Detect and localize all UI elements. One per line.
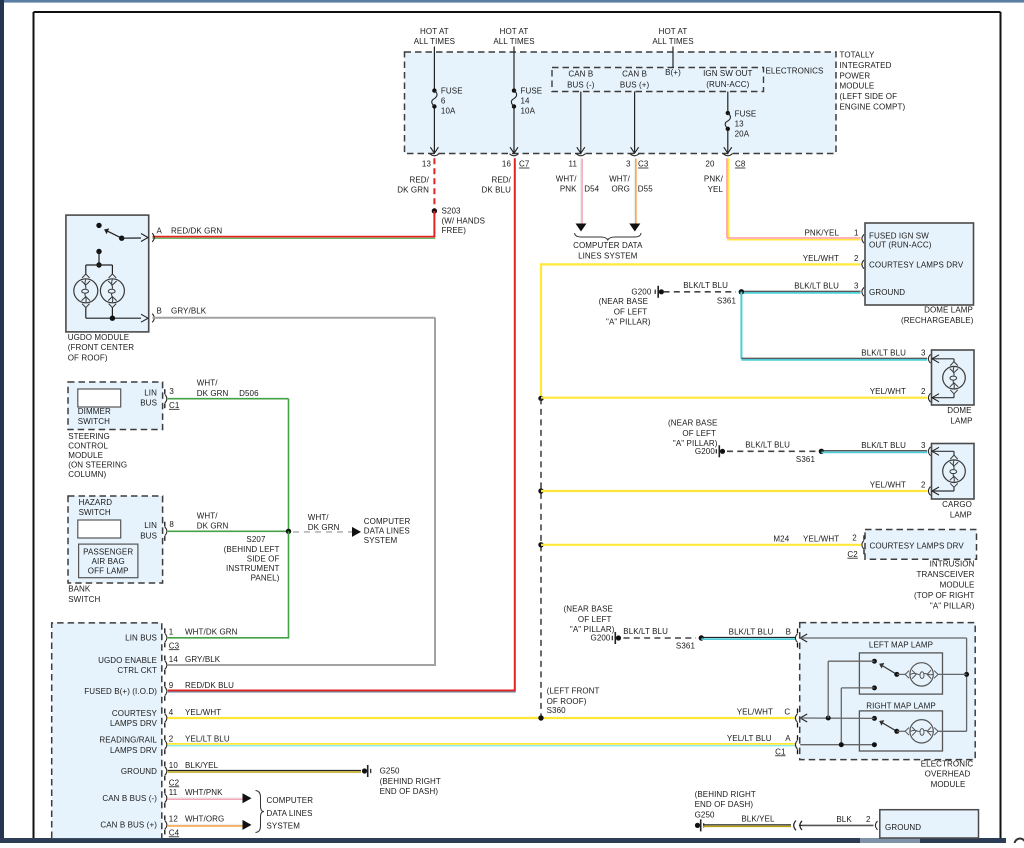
- svg-text:BUS (-): BUS (-): [567, 80, 595, 89]
- svg-text:DK GRN: DK GRN: [308, 523, 340, 532]
- svg-text:11: 11: [568, 160, 577, 169]
- wire WHT/PNK from pin 11: [576, 159, 587, 232]
- svg-text:"A" PILLAR): "A" PILLAR): [606, 318, 651, 327]
- wire BLK/LT BLU S361 to cargo lamp pin 3: [821, 441, 927, 453]
- wire YEL/WHT module pin 4 to EOM pin C: [168, 717, 796, 719]
- dome lamp name: [947, 406, 972, 425]
- DLR pin 2 COURTESY LAMPS DRV: [854, 254, 964, 270]
- svg-text:13: 13: [735, 119, 745, 128]
- ground G200 for cargo lamp: [668, 419, 725, 458]
- svg-text:S361: S361: [676, 642, 696, 651]
- dome lamp box: [932, 350, 975, 405]
- svg-text:BLK/LT BLU: BLK/LT BLU: [683, 281, 728, 290]
- svg-text:(ON STEERING: (ON STEERING: [68, 461, 127, 470]
- EOM wire B feed (ground side): [800, 638, 969, 731]
- svg-text:DK GRN: DK GRN: [197, 522, 229, 531]
- svg-text:RED/DK BLU: RED/DK BLU: [185, 681, 234, 690]
- svg-text:ENGINE COMPT): ENGINE COMPT): [840, 103, 906, 112]
- dashed harness run (left A pillar): [540, 398, 542, 718]
- svg-text:B: B: [786, 628, 791, 637]
- svg-text:FREE): FREE): [442, 226, 467, 235]
- svg-text:ALL TIMES: ALL TIMES: [652, 37, 693, 46]
- svg-text:OFF LAMP: OFF LAMP: [88, 567, 129, 576]
- svg-text:BUS (+): BUS (+): [620, 80, 650, 89]
- svg-text:HOT AT: HOT AT: [500, 27, 529, 36]
- UGDO pin A: [152, 227, 222, 242]
- svg-text:A: A: [785, 734, 791, 743]
- module pin 4 (YEL/WHT): [110, 708, 221, 728]
- svg-text:UGDO ENABLE: UGDO ENABLE: [98, 656, 157, 665]
- UGDO lamp return wires to pin B: [86, 308, 148, 322]
- UGDO lamp feed node: [86, 249, 113, 274]
- bank switch box: [68, 496, 163, 583]
- cargo lamp internal lamp: [933, 451, 965, 491]
- module pin 11 (WHT/PNK): [102, 788, 223, 808]
- svg-text:S203: S203: [442, 207, 462, 216]
- svg-text:BLK/LT BLU: BLK/LT BLU: [623, 627, 668, 636]
- svg-text:MODULE: MODULE: [840, 82, 875, 91]
- ground G250 (bottom right): [695, 790, 756, 832]
- splice S207: [224, 529, 292, 583]
- svg-text:12: 12: [169, 815, 179, 824]
- wire RED/DK GRN dashed segment from pin 13: [433, 158, 435, 209]
- bank switch LIN BUS label: [140, 521, 157, 540]
- svg-text:16: 16: [502, 160, 512, 169]
- svg-text:YEL/WHT: YEL/WHT: [737, 708, 773, 717]
- module pin 14 (GRY/BLK): [98, 655, 221, 675]
- svg-text:POWER: POWER: [840, 71, 871, 80]
- svg-text:WHT/PNK: WHT/PNK: [185, 788, 223, 797]
- UGDO lamp 1: [74, 279, 98, 303]
- svg-text:S361: S361: [717, 296, 737, 305]
- svg-text:YEL/LT BLU: YEL/LT BLU: [185, 735, 230, 744]
- svg-text:YEL/LT BLU: YEL/LT BLU: [727, 734, 772, 743]
- svg-text:G250: G250: [380, 767, 400, 776]
- svg-text:CONTROL: CONTROL: [68, 441, 108, 450]
- svg-text:2: 2: [854, 254, 859, 263]
- wire WHT/PNK module pin 11 to data lines: [168, 793, 252, 803]
- ground box pin 2: [866, 815, 878, 830]
- svg-text:CAN B: CAN B: [622, 70, 647, 79]
- svg-text:10A: 10A: [441, 106, 456, 115]
- svg-text:CARGO: CARGO: [942, 500, 972, 509]
- svg-text:(BEHIND LEFT: (BEHIND LEFT: [224, 545, 280, 554]
- svg-text:BLK/YEL: BLK/YEL: [185, 761, 219, 770]
- dimmer switch: [78, 389, 121, 426]
- UGDO module name: [68, 333, 135, 363]
- SCM LIN BUS label: [140, 388, 157, 407]
- svg-text:INTRUSION: INTRUSION: [930, 560, 975, 569]
- svg-text:ALL TIMES: ALL TIMES: [493, 37, 534, 46]
- svg-text:S207: S207: [246, 535, 266, 544]
- ground G200 (near base of left A pillar): [599, 286, 664, 327]
- splice S361 (cargo): [796, 449, 824, 464]
- right map lamp box: [859, 711, 942, 751]
- svg-text:FUSE: FUSE: [521, 86, 543, 95]
- svg-text:WHT/ORG: WHT/ORG: [185, 815, 224, 824]
- svg-text:FUSED B(+) (I.O.D): FUSED B(+) (I.O.D): [84, 687, 157, 696]
- svg-text:AIR BAG: AIR BAG: [92, 557, 125, 566]
- wire GRY/BLK from UGDO pin B to module pin 14: [153, 318, 437, 666]
- intrusion transceiver module name: [914, 560, 975, 611]
- left map lamp box: [859, 653, 942, 694]
- power feed HOT AT ALL TIMES (fuse 6): [414, 27, 455, 88]
- svg-text:"A" PILLAR): "A" PILLAR): [930, 602, 975, 611]
- svg-text:GROUND: GROUND: [885, 823, 921, 832]
- wire WHT/ORG label and D55: [609, 175, 653, 194]
- UGDO lamp 2: [100, 279, 124, 303]
- svg-text:YEL: YEL: [708, 185, 724, 194]
- svg-text:SIDE OF: SIDE OF: [247, 554, 280, 563]
- svg-text:(NEAR BASE: (NEAR BASE: [668, 419, 717, 428]
- svg-text:OF ROOF): OF ROOF): [68, 354, 108, 363]
- svg-text:END OF DASH): END OF DASH): [695, 800, 754, 809]
- EOM name: [921, 759, 974, 789]
- svg-text:COLUMN): COLUMN): [68, 470, 106, 479]
- power feed HOT AT ALL TIMES (fuse 14): [493, 27, 534, 88]
- svg-text:WHT/: WHT/: [197, 511, 219, 520]
- wire BLK/YEL G250 to inline connector: [703, 815, 791, 827]
- svg-text:ALL TIMES: ALL TIMES: [414, 37, 455, 46]
- svg-text:2: 2: [169, 735, 174, 744]
- svg-text:UGDO MODULE: UGDO MODULE: [68, 333, 130, 342]
- svg-text:OF LEFT: OF LEFT: [614, 307, 648, 316]
- wire WHT/ORG module pin 12 to data lines: [168, 820, 252, 830]
- right map lamp switch: [872, 716, 899, 734]
- svg-text:DOME: DOME: [947, 406, 971, 415]
- svg-text:COURTESY: COURTESY: [112, 709, 158, 718]
- wire YEL/WHT from DLR pin 2: [541, 254, 861, 399]
- svg-text:(BEHIND RIGHT: (BEHIND RIGHT: [695, 790, 756, 799]
- svg-text:10: 10: [169, 761, 179, 770]
- wire BLK/LT BLU S361 down to dome lamp pin 3: [741, 292, 927, 360]
- svg-text:C3: C3: [638, 160, 649, 169]
- svg-text:(NEAR BASE: (NEAR BASE: [564, 605, 613, 614]
- wire BLK/LT BLU S361 to EOM pin B: [701, 628, 795, 640]
- svg-text:SWITCH: SWITCH: [78, 417, 110, 426]
- overhead console module box (bottom left): [52, 623, 162, 838]
- svg-text:BLK/YEL: BLK/YEL: [741, 815, 775, 824]
- computer data lines system (top) brace and label: [573, 233, 643, 260]
- svg-text:YEL/WHT: YEL/WHT: [870, 387, 906, 396]
- wire YEL/WHT junction to dome lamp pin 2: [538, 396, 927, 401]
- EOM pin B: [786, 628, 808, 648]
- svg-text:M24: M24: [773, 535, 789, 544]
- svg-text:D55: D55: [638, 184, 653, 193]
- wire WHT/DK GRN labels at pin 8: [197, 511, 229, 530]
- svg-text:COMPUTER: COMPUTER: [364, 517, 411, 526]
- wire YEL/LT BLU module pin 2 to EOM pin A: [168, 743, 796, 745]
- svg-text:(BEHIND RIGHT: (BEHIND RIGHT: [380, 777, 441, 786]
- module pin 9 (RED/DK BLU): [84, 681, 234, 701]
- svg-text:CAN B BUS (-): CAN B BUS (-): [102, 794, 157, 803]
- wire RED/DK GRN label: [397, 175, 429, 194]
- wire WHT/DK GRN from SCM pin 3 (D506): [168, 399, 289, 532]
- svg-text:TRANSCEIVER: TRANSCEIVER: [917, 570, 975, 579]
- svg-text:(LEFT SIDE OF: (LEFT SIDE OF: [840, 92, 898, 101]
- svg-text:GRY/BLK: GRY/BLK: [171, 307, 207, 316]
- svg-text:TOTALLY: TOTALLY: [840, 51, 875, 60]
- svg-text:2: 2: [866, 815, 871, 824]
- svg-text:INTEGRATED: INTEGRATED: [840, 61, 892, 70]
- svg-text:B(+): B(+): [665, 68, 681, 77]
- svg-text:DIMMER: DIMMER: [78, 407, 111, 416]
- UGDO pin B: [152, 307, 207, 323]
- fuse F6 10A: [430, 86, 462, 153]
- svg-text:SYSTEM: SYSTEM: [364, 536, 398, 545]
- computer data lines system (bottom) brace and label: [256, 791, 314, 833]
- svg-text:ORG: ORG: [611, 184, 630, 193]
- svg-text:C: C: [784, 708, 790, 717]
- cargo lamp box: [932, 444, 975, 500]
- dome lamp (rechargeable) box: [865, 223, 974, 305]
- svg-text:BLK: BLK: [836, 815, 852, 824]
- svg-text:HOT AT: HOT AT: [659, 27, 688, 36]
- svg-text:6: 6: [441, 96, 446, 105]
- TIPM pin 20 connector C8: [705, 154, 745, 169]
- svg-text:1: 1: [854, 228, 859, 237]
- svg-text:G250: G250: [695, 811, 715, 820]
- svg-text:CAN B BUS (+): CAN B BUS (+): [100, 821, 157, 830]
- svg-text:COURTESY LAMPS DRV: COURTESY LAMPS DRV: [869, 260, 964, 269]
- svg-text:LAMPS DRV: LAMPS DRV: [110, 719, 158, 728]
- svg-text:MODULE: MODULE: [68, 451, 103, 460]
- bank switch name: [68, 585, 100, 604]
- svg-text:OVERHEAD: OVERHEAD: [925, 770, 971, 779]
- inline connector: [794, 821, 802, 831]
- svg-text:WHT/: WHT/: [197, 379, 219, 388]
- svg-text:CTRL CKT: CTRL CKT: [117, 666, 157, 675]
- svg-text:C1: C1: [169, 401, 180, 410]
- cargo lamp pin 2: [870, 481, 939, 496]
- svg-text:2: 2: [921, 481, 926, 490]
- computer data lines system (middle) labels: [308, 513, 411, 545]
- fuse F14 10A: [510, 86, 542, 153]
- bank switch pin 8: [165, 520, 175, 541]
- svg-text:20: 20: [705, 160, 715, 169]
- svg-text:HAZARD: HAZARD: [79, 498, 113, 507]
- svg-text:WHT/DK GRN: WHT/DK GRN: [185, 628, 238, 637]
- svg-text:3: 3: [626, 160, 631, 169]
- ground G200 for EOM: [564, 605, 622, 645]
- svg-text:CAN B: CAN B: [568, 70, 593, 79]
- svg-text:BANK: BANK: [68, 585, 91, 594]
- svg-text:3: 3: [169, 387, 174, 396]
- EOM wire C feed to both switches: [800, 661, 874, 720]
- svg-text:WHT/: WHT/: [308, 513, 330, 522]
- svg-text:LIN BUS: LIN BUS: [125, 634, 157, 643]
- wire WHT/DK GRN from bank switch pin 8: [168, 530, 289, 532]
- svg-text:D54: D54: [584, 184, 599, 193]
- svg-text:SYSTEM: SYSTEM: [267, 822, 301, 831]
- svg-text:LEFT MAP LAMP: LEFT MAP LAMP: [869, 641, 933, 650]
- right map lamp bulb: [897, 720, 967, 743]
- svg-text:YEL/WHT: YEL/WHT: [185, 708, 221, 717]
- svg-text:RED/DK GRN: RED/DK GRN: [171, 227, 222, 236]
- svg-text:OF ROOF): OF ROOF): [547, 697, 587, 706]
- splice S360: [538, 687, 599, 721]
- svg-text:C2: C2: [847, 550, 858, 559]
- svg-text:BUS: BUS: [140, 531, 157, 540]
- svg-text:COMPUTER DATA: COMPUTER DATA: [573, 241, 643, 250]
- svg-text:10A: 10A: [521, 106, 536, 115]
- svg-text:YEL/WHT: YEL/WHT: [870, 481, 906, 490]
- svg-text:DK GRN: DK GRN: [197, 389, 229, 398]
- svg-text:PNK/YEL: PNK/YEL: [805, 228, 840, 237]
- UGDO module box: [66, 215, 149, 332]
- svg-text:MODULE: MODULE: [940, 581, 975, 590]
- svg-text:C4: C4: [169, 828, 180, 837]
- svg-text:OF LEFT: OF LEFT: [682, 429, 716, 438]
- ground box: [880, 810, 979, 838]
- splice S203: [432, 207, 485, 236]
- svg-text:OUT (RUN-ACC): OUT (RUN-ACC): [869, 240, 932, 249]
- svg-text:20A: 20A: [735, 129, 750, 138]
- svg-text:8: 8: [169, 520, 174, 529]
- svg-text:DK GRN: DK GRN: [397, 185, 429, 194]
- electronics section box inside TIPM: [552, 68, 764, 92]
- svg-text:14: 14: [521, 96, 531, 105]
- svg-text:S361: S361: [796, 455, 816, 464]
- svg-text:YEL/WHT: YEL/WHT: [803, 535, 839, 544]
- svg-text:MODULE: MODULE: [931, 780, 966, 789]
- power feed HOT AT ALL TIMES (B+): [652, 27, 693, 67]
- net CAN B BUS (-) label: [567, 70, 595, 90]
- svg-text:BLK/LT BLU: BLK/LT BLU: [861, 441, 906, 450]
- svg-text:3: 3: [921, 441, 926, 450]
- svg-text:1: 1: [169, 628, 174, 637]
- svg-text:BLK/LT BLU: BLK/LT BLU: [745, 440, 790, 449]
- ground G250 (behind right end of dash): [362, 765, 441, 796]
- intrusion module pin 2 connector C2: [847, 533, 864, 558]
- svg-text:LAMP: LAMP: [950, 417, 972, 426]
- EOM pin A connector C1: [727, 734, 798, 756]
- svg-text:COMPUTER: COMPUTER: [267, 796, 314, 805]
- module pin 10 (BLK/YEL): [121, 761, 219, 788]
- svg-text:LAMP: LAMP: [950, 511, 972, 520]
- svg-text:SWITCH: SWITCH: [79, 508, 111, 517]
- dashed link S207 to computer data lines system: [293, 527, 361, 537]
- svg-text:LAMPS DRV: LAMPS DRV: [110, 746, 158, 755]
- SCM pin 3 connector C1: [165, 387, 180, 410]
- svg-text:WHT/: WHT/: [609, 175, 631, 184]
- splice S361: [717, 289, 744, 305]
- svg-text:B: B: [157, 307, 162, 316]
- left map lamp switch: [872, 659, 899, 677]
- svg-text:G200: G200: [631, 287, 651, 296]
- svg-text:GROUND: GROUND: [869, 288, 905, 297]
- left map lamp lower terminal: [841, 685, 877, 744]
- svg-text:YEL/WHT: YEL/WHT: [803, 254, 839, 263]
- svg-text:(RUN-ACC): (RUN-ACC): [706, 80, 749, 89]
- svg-text:PANEL): PANEL): [251, 574, 280, 583]
- wire CAN B BUS (+) inside TIPM: [631, 92, 639, 154]
- wire YEL/WHT junction to cargo lamp pin 2: [538, 488, 927, 493]
- TIPM pin 13: [422, 154, 439, 169]
- dashed wire G200 to S361 (cargo): [727, 440, 816, 451]
- wire WHT/DK GRN from S207 down to module pin 1: [168, 531, 289, 638]
- totally integrated power module U1 (TIPM) box: [405, 52, 837, 154]
- svg-text:A: A: [157, 227, 163, 236]
- TIPM name label: [840, 51, 906, 112]
- fuse F13 20A: [724, 92, 757, 154]
- svg-text:3: 3: [921, 348, 926, 357]
- svg-text:(RECHARGEABLE): (RECHARGEABLE): [901, 316, 974, 325]
- svg-text:WHT/: WHT/: [556, 175, 578, 184]
- wire RED/DK GRN to UGDO pin A: [153, 211, 436, 238]
- svg-text:(W/ HANDS: (W/ HANDS: [442, 216, 486, 225]
- wire PNK/YEL label (vertical part): [704, 175, 724, 195]
- svg-text:DATA LINES: DATA LINES: [364, 527, 410, 536]
- svg-text:LINES SYSTEM: LINES SYSTEM: [578, 251, 638, 260]
- svg-text:OF LEFT: OF LEFT: [578, 615, 612, 624]
- cargo lamp pin 3: [921, 441, 939, 456]
- svg-text:S360: S360: [547, 706, 567, 715]
- svg-text:LIN: LIN: [144, 388, 157, 397]
- TIPM pin 16 connector C7: [502, 154, 530, 169]
- splice S361 (EOM): [676, 635, 704, 650]
- svg-text:RED/: RED/: [491, 175, 511, 184]
- svg-text:C1: C1: [775, 747, 786, 756]
- SCM name: [68, 432, 127, 479]
- DLR pin 1 FUSED IGN SW OUT: [854, 228, 932, 249]
- svg-text:ELECTRONIC: ELECTRONIC: [921, 759, 974, 768]
- svg-text:SWITCH: SWITCH: [68, 595, 100, 604]
- svg-text:13: 13: [422, 160, 432, 169]
- TIPM pin 3 connector C3: [626, 154, 649, 169]
- svg-text:C7: C7: [519, 160, 530, 169]
- wire RED/DK BLU from pin 16 to module pin 9: [168, 158, 516, 692]
- module pin 2 (YEL/LT BLU): [99, 735, 230, 755]
- wire PNK/YEL from pin 20 to dome lamp (rechargeable) pin 1: [727, 158, 861, 239]
- svg-text:COURTESY LAMPS DRV: COURTESY LAMPS DRV: [870, 541, 965, 550]
- svg-text:9: 9: [169, 681, 174, 690]
- EOM wire A feed to lower terminals: [800, 742, 877, 747]
- wire RED/DK BLU label (top): [482, 175, 512, 194]
- svg-text:G200: G200: [695, 447, 715, 456]
- svg-text:G200: G200: [591, 633, 611, 642]
- svg-text:C8: C8: [735, 160, 746, 169]
- net IGN SW OUT (RUN-ACC) label: [703, 69, 752, 89]
- svg-text:11: 11: [169, 788, 178, 797]
- dome lamp pin 3: [861, 348, 939, 363]
- svg-text:READING/RAIL: READING/RAIL: [99, 736, 157, 745]
- svg-text:D506: D506: [239, 389, 259, 398]
- svg-text:2: 2: [921, 387, 926, 396]
- wire BLK/YEL module pin 10 to G250: [168, 769, 361, 771]
- wire CAN B BUS (-) inside TIPM: [577, 92, 585, 154]
- wire BLK to ground box pin 2: [802, 815, 874, 826]
- UGDO switch: [96, 223, 148, 242]
- svg-text:RED/: RED/: [409, 175, 429, 184]
- svg-text:(LEFT FRONT: (LEFT FRONT: [547, 687, 600, 696]
- TIPM pin 11: [568, 154, 585, 169]
- svg-text:HOT AT: HOT AT: [420, 27, 449, 36]
- passenger air bag off lamp: [79, 544, 138, 578]
- net CAN B BUS (+) label: [620, 70, 650, 90]
- svg-text:BLK/LT BLU: BLK/LT BLU: [861, 348, 906, 357]
- electronic overhead module box: [800, 623, 976, 760]
- wire BLK/LT BLU S361 to DLR pin 3: [739, 281, 861, 293]
- svg-text:(FRONT CENTER: (FRONT CENTER: [68, 343, 135, 352]
- svg-text:BUS: BUS: [140, 399, 157, 408]
- svg-text:LIN: LIN: [144, 521, 157, 530]
- DLR pin 3 GROUND: [854, 281, 905, 297]
- svg-text:BLK/LT BLU: BLK/LT BLU: [794, 281, 839, 290]
- hazard switch: [78, 498, 121, 538]
- svg-text:DATA LINES: DATA LINES: [267, 809, 313, 818]
- svg-text:FUSED IGN SW: FUSED IGN SW: [869, 232, 929, 241]
